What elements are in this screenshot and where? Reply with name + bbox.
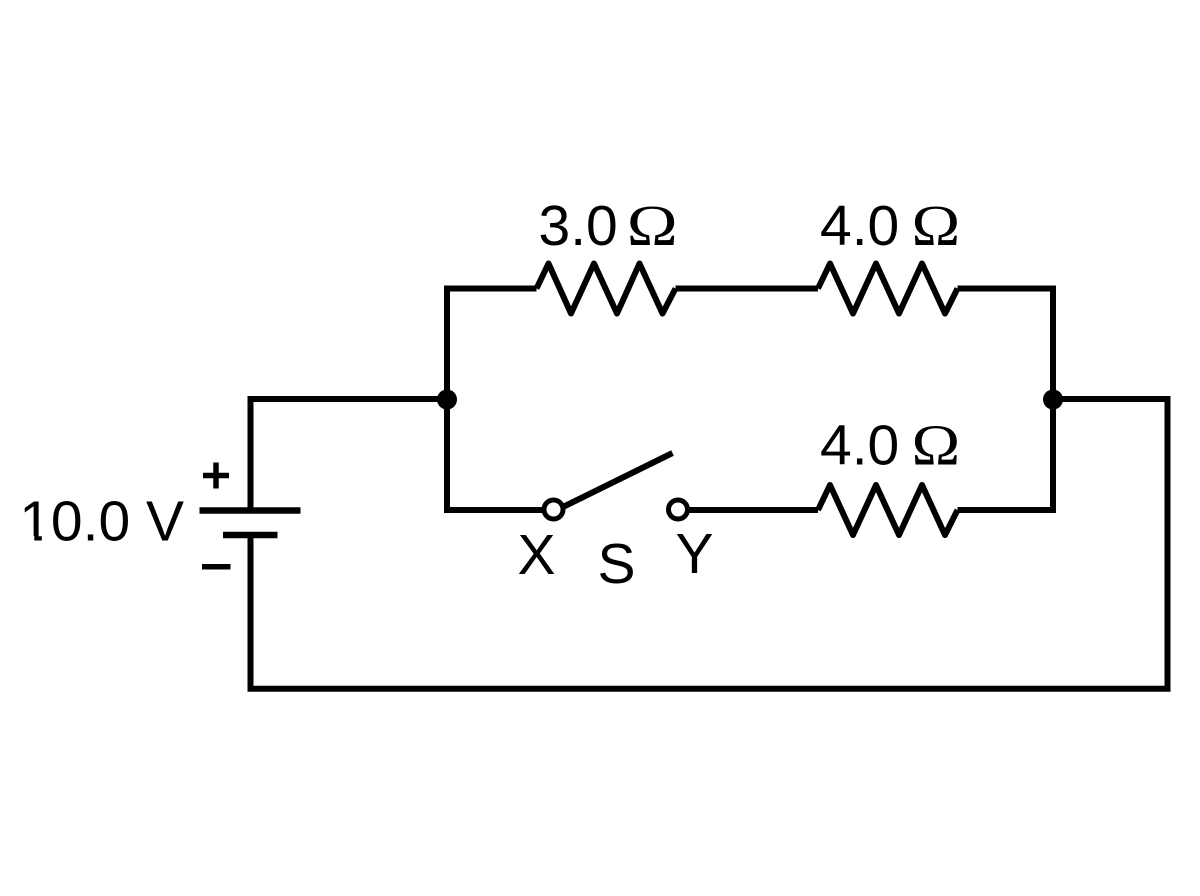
svg-text:Y: Y [675, 522, 713, 586]
wire node B to right riser and bottom rail back to battery [251, 399, 1168, 689]
wire node A up to top branch [447, 289, 537, 403]
wire R2 to top-right corner down to node B [958, 289, 1054, 400]
wire terminal Y to R3 [690, 507, 819, 513]
battery B1 positive plate [200, 507, 301, 514]
resistor R2 4.0 ohm (top) zigzag [818, 264, 958, 314]
battery plus sign [203, 473, 229, 479]
switch terminal X open circle [544, 500, 563, 519]
svg-text:10.0 V: 10.0 V [19, 490, 184, 554]
wire between R1 and R2 [676, 286, 819, 292]
switch terminal Y open circle [669, 500, 688, 519]
node A junction dot [437, 390, 457, 410]
svg-text:4.0: 4.0 [820, 194, 899, 258]
battery B1 negative plate [223, 532, 278, 539]
svg-text:Ω: Ω [912, 414, 961, 478]
wire node A down to switch branch [447, 397, 543, 510]
resistor R1 3.0 ohm zigzag [537, 264, 676, 314]
switch S blade [564, 453, 673, 507]
svg-text:3.0: 3.0 [539, 194, 618, 258]
svg-text:X: X [517, 523, 555, 587]
node B junction dot [1043, 390, 1063, 410]
resistor R3 4.0 ohm (bottom) zigzag [818, 485, 958, 535]
svg-text:4.0: 4.0 [820, 414, 899, 478]
battery minus sign [202, 564, 231, 570]
wire R3 up to node B [958, 402, 1054, 510]
svg-text:Ω: Ω [912, 194, 961, 258]
svg-text:Ω: Ω [627, 193, 678, 258]
svg-text:S: S [597, 532, 635, 596]
wire battery positive to top-left corner [251, 399, 448, 511]
